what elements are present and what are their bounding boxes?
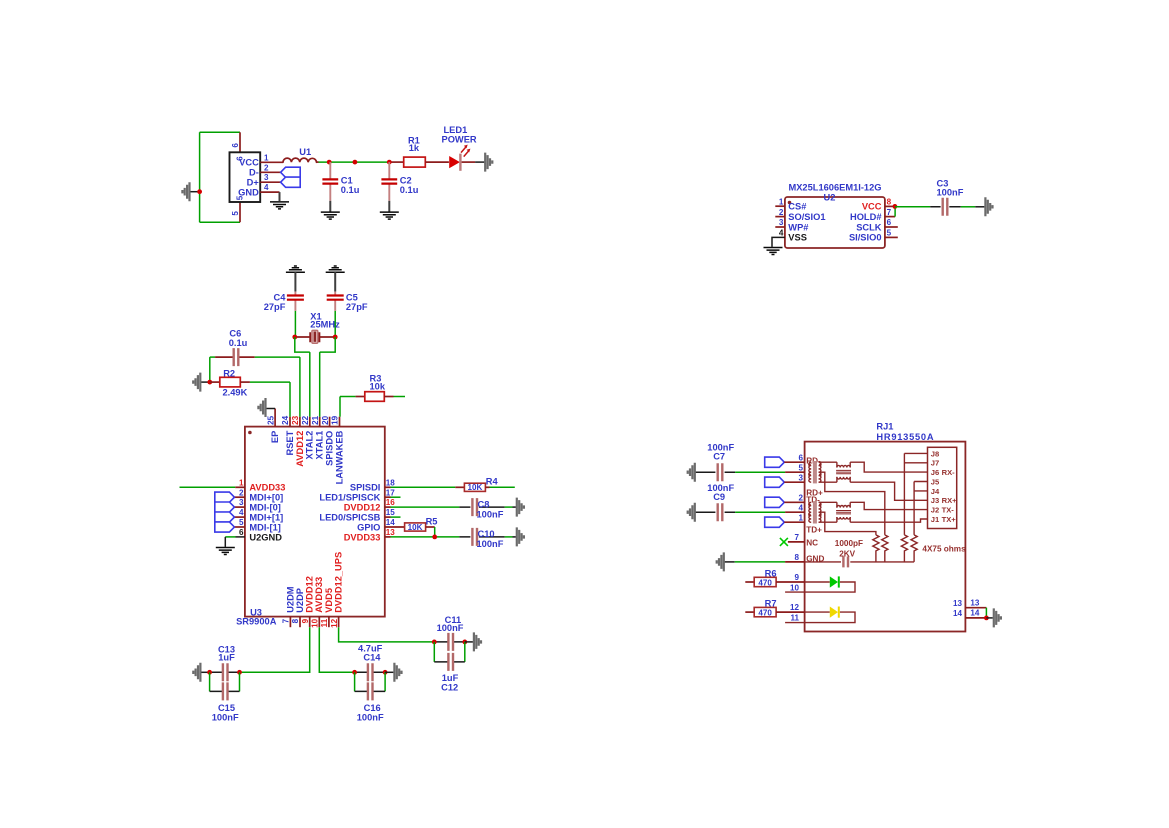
svg-text:1: 1 <box>239 478 244 487</box>
pin 3 line <box>260 181 280 183</box>
connector J-USB pin 6 line <box>239 132 241 152</box>
resistor R2 <box>210 381 220 383</box>
hierarchical label MDI-[1] <box>215 522 235 532</box>
wire VCC to C3 <box>895 206 930 208</box>
wire C6 to pin23 <box>255 357 300 417</box>
svg-text:1: 1 <box>264 153 269 162</box>
pin 1 line <box>260 161 283 163</box>
svg-text:0.1u: 0.1u <box>400 185 419 195</box>
U3 pin 25 (EP) line <box>274 409 276 427</box>
svg-text:J3: J3 <box>931 496 939 505</box>
connector J-USB pin 5 line <box>239 202 241 222</box>
hierarchical label D- <box>281 167 301 177</box>
ground (C5, inverted) <box>326 266 345 272</box>
svg-text:J8: J8 <box>931 449 939 458</box>
svg-text:27pF: 27pF <box>264 302 286 312</box>
power arrow gray right (C10) <box>517 527 524 546</box>
svg-text:100nF: 100nF <box>937 188 964 198</box>
svg-text:DVDD12: DVDD12 <box>344 502 381 512</box>
svg-text:25MHz: 25MHz <box>310 319 340 329</box>
RJ1 pin 8 (GND) <box>717 552 724 571</box>
transformer RD common-mode choke <box>813 461 817 483</box>
power arrow gray right (C11) <box>474 632 481 651</box>
junction U2 pin8 <box>893 204 898 209</box>
U2 pin 8 line <box>885 205 895 207</box>
U3 pin 3 (MDI-[0]) <box>234 506 245 508</box>
junction X1 right <box>333 335 338 340</box>
wire C13/C15 sides <box>210 672 240 691</box>
wire CMC-TD to T-TD top <box>819 501 837 503</box>
svg-text:LED1: LED1 <box>444 125 468 135</box>
hierarchical label RJ1 pin 6 <box>765 457 785 467</box>
pin 4 line <box>260 191 279 193</box>
wire XTAL1 net <box>320 337 336 417</box>
resistor 75ohm (TD tap) <box>873 535 879 562</box>
capacitor C14 <box>355 671 386 673</box>
svg-text:9: 9 <box>794 573 799 582</box>
U2 pin 3 line <box>775 226 785 228</box>
svg-text:LED1/SPISCK: LED1/SPISCK <box>319 493 380 503</box>
ground (U2GND) <box>216 548 235 555</box>
svg-text:5: 5 <box>239 518 244 527</box>
svg-text:2.49K: 2.49K <box>223 388 248 398</box>
power arrow gray right <box>485 153 492 172</box>
U3 pin 15 (LED0/SPICSB) <box>385 516 391 518</box>
hierarchical label RJ1 pin 2 <box>765 497 785 507</box>
svg-text:100nF: 100nF <box>212 712 239 722</box>
power arrow gray right (RJ shield) <box>994 608 1001 627</box>
capacitor C6 <box>210 356 215 358</box>
U3 pin 5 (MDI-[1]) <box>234 526 245 528</box>
svg-text:C14: C14 <box>363 653 381 663</box>
resistor R3 <box>340 396 356 398</box>
svg-text:GND: GND <box>238 187 259 197</box>
svg-text:HR913550A: HR913550A <box>876 432 934 442</box>
RJ1 pin 14 line <box>965 617 986 619</box>
svg-text:8: 8 <box>887 197 892 206</box>
hierarchical label MDI-[0] <box>215 502 235 512</box>
svg-text:2: 2 <box>798 493 803 502</box>
IC U3 SR9900A body <box>245 427 385 617</box>
junction C11 left <box>432 640 437 645</box>
svg-text:11: 11 <box>790 614 799 623</box>
wire RD center tap to resistor <box>819 472 885 535</box>
svg-text:2: 2 <box>239 488 244 497</box>
svg-text:U2: U2 <box>824 193 836 203</box>
svg-text:LANWAKEB: LANWAKEB <box>334 430 344 484</box>
svg-text:100nF: 100nF <box>477 539 504 549</box>
wire USB shield loop net <box>200 132 240 222</box>
svg-text:DVDD33: DVDD33 <box>344 532 381 542</box>
junction pin14 <box>984 616 989 621</box>
transformer RD isolation <box>836 462 838 467</box>
svg-text:VSS: VSS <box>788 233 807 243</box>
U3 bottom pin 10 (AVDD33) <box>318 617 320 628</box>
svg-text:AVDD12: AVDD12 <box>295 431 305 467</box>
LED yellow (activity) <box>785 612 855 623</box>
svg-text:SPISDI: SPISDI <box>350 483 380 493</box>
U3 top pin 20 (SPISDO) <box>329 417 331 427</box>
RJ1 pin 9 line <box>776 581 805 583</box>
svg-text:C9: C9 <box>713 492 725 502</box>
junction <box>197 189 202 194</box>
svg-text:R7: R7 <box>765 599 777 609</box>
U3 pin 1 (AVDD33) <box>235 486 245 488</box>
svg-text:SI/SIO0: SI/SIO0 <box>849 233 882 243</box>
svg-text:25: 25 <box>266 415 275 425</box>
svg-text:16: 16 <box>386 498 396 507</box>
svg-text:GPIO: GPIO <box>357 522 380 532</box>
capacitor 1000pF 2KV <box>805 561 915 563</box>
svg-text:5: 5 <box>798 463 803 472</box>
hierarchical label D+ <box>281 177 301 187</box>
svg-text:RX-: RX- <box>942 468 956 477</box>
svg-text:C7: C7 <box>713 452 725 462</box>
svg-text:100nF: 100nF <box>357 712 384 722</box>
svg-text:10K: 10K <box>467 483 482 492</box>
pin 2 line <box>260 171 280 173</box>
U3 top pin 23 (AVDD12) <box>299 417 301 427</box>
resistor R7 <box>745 611 754 613</box>
wire CMC-RD to T-RD bottom <box>819 481 837 483</box>
power arrow gray left <box>182 182 189 201</box>
power arrow gray right (C3) <box>985 197 992 216</box>
svg-text:MDI+[0]: MDI+[0] <box>249 493 283 503</box>
connector USB body <box>230 152 261 202</box>
junction mid <box>353 160 358 165</box>
crystal X1 <box>295 336 335 338</box>
LED green (link) <box>785 582 855 592</box>
svg-text:R6: R6 <box>765 569 777 579</box>
wire pin10 down <box>319 627 354 672</box>
capacitor C16 <box>355 690 386 692</box>
svg-text:2: 2 <box>264 163 269 172</box>
svg-text:1000pF: 1000pF <box>835 539 863 548</box>
wire T-RD top to J6 <box>850 462 927 472</box>
svg-text:SO/SIO1: SO/SIO1 <box>788 212 825 222</box>
wire J8/J7 tie <box>904 453 927 535</box>
power arrow gray left (EP) <box>258 398 265 417</box>
svg-text:23: 23 <box>291 415 300 425</box>
svg-text:17: 17 <box>386 488 396 497</box>
power arrow gray left (R2) <box>193 373 200 392</box>
svg-text:U2GND: U2GND <box>249 532 282 542</box>
wire CMC-TD to T-TD bottom <box>819 521 837 523</box>
svg-text:C12: C12 <box>441 683 458 693</box>
svg-text:RJ1: RJ1 <box>876 422 893 432</box>
svg-text:MX25L1606EM1I-12G: MX25L1606EM1I-12G <box>788 183 881 193</box>
RJ1 pin 12 line <box>776 611 805 613</box>
svg-text:7: 7 <box>282 618 291 623</box>
svg-text:2: 2 <box>779 208 784 217</box>
svg-text:100nF: 100nF <box>477 509 504 519</box>
svg-text:C6: C6 <box>229 328 241 338</box>
U3 pin 2 (MDI+[0]) <box>234 496 245 498</box>
capacitor C1 <box>329 162 331 201</box>
junction C11 right <box>462 640 467 645</box>
wire LED to ground arrow <box>462 161 476 163</box>
svg-text:4: 4 <box>239 508 244 517</box>
capacitor C9 <box>688 503 695 522</box>
IC U2 MX25L1606EM1I-12G body <box>785 197 885 248</box>
svg-text:21: 21 <box>311 415 320 425</box>
capacitor C2 <box>388 162 390 201</box>
U2 pin 2 line <box>775 216 785 218</box>
svg-text:D-: D- <box>249 168 259 178</box>
RJ1 pin 2 line <box>784 501 804 503</box>
resistor 75ohm (J4/J5) <box>911 535 917 562</box>
capacitor C8 <box>459 506 504 508</box>
hierarchical label MDI+[1] <box>215 512 235 522</box>
capacitor C4 <box>294 272 296 291</box>
svg-text:3: 3 <box>779 218 784 227</box>
svg-text:TX+: TX+ <box>942 515 957 524</box>
junction C13 left <box>207 670 212 675</box>
svg-text:LED0/SPICSB: LED0/SPICSB <box>319 512 380 522</box>
RJ1 pin 4 line <box>785 511 805 513</box>
U3 pin 14 (GPIO) <box>385 526 405 528</box>
svg-text:DVDD12_UPS: DVDD12_UPS <box>334 552 344 613</box>
wire C11/C12 sides <box>434 642 465 662</box>
svg-text:R2: R2 <box>223 368 235 378</box>
wire R2 to pin24 <box>250 382 290 417</box>
svg-text:R4: R4 <box>486 476 499 486</box>
svg-text:XTAL1: XTAL1 <box>315 431 325 460</box>
transformer TD common-mode choke <box>813 501 817 523</box>
svg-text:J1: J1 <box>931 515 940 524</box>
U2 pin 5 line <box>885 236 898 238</box>
svg-text:470: 470 <box>758 578 772 587</box>
wire HOLD# tie to VCC <box>894 206 896 216</box>
svg-text:4: 4 <box>264 183 269 192</box>
power arrow gray left (C13) <box>193 663 200 682</box>
svg-text:10: 10 <box>311 618 320 628</box>
ground (USB pin4) <box>279 192 281 201</box>
wire CMC-RD to T-RD top <box>819 461 837 463</box>
U3 pin 16 (DVDD12) <box>385 506 391 508</box>
svg-text:1: 1 <box>798 513 803 522</box>
svg-text:10: 10 <box>790 584 800 593</box>
svg-text:3: 3 <box>264 173 269 182</box>
power arrow gray right (C14) <box>394 663 401 682</box>
lead to shield loop <box>191 191 200 193</box>
svg-text:10k: 10k <box>370 382 386 392</box>
svg-text:U2DP: U2DP <box>295 588 305 613</box>
resistor R5 <box>405 523 426 531</box>
U3 bottom pin 11 (VDD5) <box>328 617 330 628</box>
svg-text:0.1u: 0.1u <box>341 185 360 195</box>
power arrow gray right (C8) <box>517 498 524 517</box>
svg-text:U1: U1 <box>299 147 311 157</box>
svg-text:XTAL2: XTAL2 <box>305 431 315 460</box>
RJ1 inner connector box <box>928 447 957 528</box>
inductor U1 <box>283 158 317 162</box>
capacitor C15 <box>210 690 240 692</box>
U2 pin 6 line <box>885 226 898 228</box>
svg-text:MDI+[1]: MDI+[1] <box>249 513 283 523</box>
svg-text:12: 12 <box>330 618 339 628</box>
wire J5/J4 tie <box>914 482 927 535</box>
U2 pin 7 line <box>885 216 895 218</box>
junction C2 <box>387 160 392 165</box>
svg-text:6: 6 <box>798 453 803 462</box>
transformer TD isolation <box>836 502 838 507</box>
pin1 orientation dot <box>788 201 792 205</box>
svg-text:19: 19 <box>331 415 340 425</box>
svg-text:100nF: 100nF <box>437 623 464 633</box>
svg-text:SPISDO: SPISDO <box>325 431 335 466</box>
LED LED1 <box>449 145 470 171</box>
U3 top pin 19 (LANWAKEB) <box>339 417 341 427</box>
hierarchical label RJ1 pin 1 <box>765 517 785 527</box>
svg-text:EP: EP <box>270 431 280 443</box>
svg-text:13: 13 <box>386 528 396 537</box>
svg-text:12: 12 <box>790 603 800 612</box>
svg-text:J5: J5 <box>931 477 940 486</box>
svg-text:VCC: VCC <box>239 158 259 168</box>
svg-text:27pF: 27pF <box>346 302 368 312</box>
junction C14 right <box>383 670 388 675</box>
svg-text:470: 470 <box>758 608 772 617</box>
U3 pin 4 (MDI+[1]) <box>234 516 245 518</box>
capacitor C7 <box>688 463 695 482</box>
ground (C4, inverted) <box>286 266 305 272</box>
svg-text:POWER: POWER <box>442 135 477 145</box>
svg-text:22: 22 <box>301 415 310 425</box>
svg-text:D+: D+ <box>247 178 260 188</box>
svg-text:CS#: CS# <box>788 202 807 212</box>
svg-text:15: 15 <box>386 508 396 517</box>
RJ1 pin 7 (NC) no-connect cross <box>780 538 788 546</box>
svg-text:1: 1 <box>779 197 784 206</box>
svg-text:MDI-[0]: MDI-[0] <box>249 503 281 513</box>
svg-text:9: 9 <box>301 618 310 623</box>
svg-text:4: 4 <box>798 503 803 512</box>
svg-text:7: 7 <box>887 208 892 217</box>
svg-text:6: 6 <box>887 218 892 227</box>
svg-text:0.1u: 0.1u <box>229 338 248 348</box>
U3 bottom pin 8 (U2DP) <box>299 617 301 628</box>
svg-text:VCC: VCC <box>862 202 882 212</box>
capacitor C13 <box>210 671 240 673</box>
svg-text:SR9900A: SR9900A <box>236 617 277 627</box>
svg-text:VDD5: VDD5 <box>324 588 334 613</box>
U3 bottom pin 9 (DVDD12) <box>309 617 311 628</box>
ground (U2 VSS) <box>764 248 783 255</box>
wire pin12 down <box>339 627 435 642</box>
wire AVDD33 net left <box>180 486 236 488</box>
U3 pin 13 (DVDD33) <box>385 536 391 538</box>
U3 top pin 24 (RSET) <box>289 417 291 427</box>
resistor R4 <box>464 483 485 491</box>
svg-text:J2: J2 <box>931 506 939 515</box>
U3 pin 17 (LED1/SPISCK) <box>385 496 391 498</box>
svg-text:18: 18 <box>386 478 396 487</box>
resistor 75ohm (J7/J8) <box>901 535 907 562</box>
capacitor C3 <box>930 206 961 208</box>
connector RJ1 body <box>805 442 966 632</box>
capacitor C10 <box>459 536 504 538</box>
svg-text:3: 3 <box>798 473 803 482</box>
wire C6/R2 junction <box>209 357 211 382</box>
U3 bottom pin 7 (U2DM) <box>289 617 291 628</box>
svg-text:AVDD33: AVDD33 <box>249 483 285 493</box>
resistor 75ohm (RD tap) <box>882 535 888 562</box>
svg-text:U2DM: U2DM <box>285 586 295 613</box>
RJ1 pin 1 line <box>784 521 804 523</box>
svg-text:RX+: RX+ <box>942 496 958 505</box>
svg-text:J4: J4 <box>931 487 940 496</box>
wire T-TD top to J2 <box>850 502 927 509</box>
wire R1 to LED <box>425 161 449 163</box>
svg-text:J7: J7 <box>931 459 939 468</box>
svg-text:14: 14 <box>953 609 963 618</box>
U3 top pin 22 (XTAL2) <box>309 417 311 427</box>
svg-text:1uF: 1uF <box>218 653 235 663</box>
junction C13 right <box>237 670 242 675</box>
resistor R1 <box>404 157 426 167</box>
svg-text:R5: R5 <box>426 517 438 527</box>
svg-text:WP#: WP# <box>788 222 809 232</box>
svg-text:MDI-[1]: MDI-[1] <box>249 522 281 532</box>
svg-text:4X75 ohms: 4X75 ohms <box>922 545 966 554</box>
svg-text:C8: C8 <box>478 499 490 509</box>
svg-text:NC: NC <box>806 538 818 547</box>
svg-text:1k: 1k <box>409 143 420 153</box>
hierarchical label RJ1 pin 3 <box>765 477 785 487</box>
wire T-TD bottom to J1 <box>850 519 927 522</box>
svg-text:8: 8 <box>291 618 300 623</box>
svg-text:5: 5 <box>887 229 892 238</box>
svg-text:5: 5 <box>231 211 240 216</box>
U2 pin 1 line <box>775 205 785 207</box>
wire TD center tap to resistor <box>819 512 876 535</box>
RJ1 pin 13 line <box>965 607 986 609</box>
pin1 orientation dot U3 <box>248 431 252 435</box>
wire R3 to pin19 <box>339 397 341 417</box>
junction C1 <box>327 160 332 165</box>
U3 pin 6 (U2GND) <box>236 536 245 538</box>
wire VBUS net <box>317 161 319 163</box>
RJ1 pin 5 line <box>785 471 805 473</box>
svg-text:J6: J6 <box>931 468 939 477</box>
wire XTAL2 net <box>295 337 310 417</box>
svg-text:14: 14 <box>970 609 980 618</box>
svg-text:AVDD33: AVDD33 <box>314 577 324 613</box>
svg-text:C10: C10 <box>478 529 495 539</box>
wire R5 to pin13 net <box>434 527 436 537</box>
junction C14 left <box>352 670 357 675</box>
svg-text:3: 3 <box>239 498 244 507</box>
svg-text:HOLD#: HOLD# <box>850 212 882 222</box>
svg-text:2KV: 2KV <box>839 550 855 559</box>
capacitor C12 <box>434 661 465 663</box>
RJ1 pin 6 line <box>784 461 804 463</box>
junction X1 left <box>292 335 297 340</box>
hierarchical label MDI+[0] <box>215 492 235 502</box>
RJ1 pin 3 line <box>784 481 804 483</box>
svg-text:TX-: TX- <box>942 506 955 515</box>
svg-text:DVDD12: DVDD12 <box>305 576 315 613</box>
svg-text:6: 6 <box>239 528 244 537</box>
svg-text:4: 4 <box>779 229 784 238</box>
wire T-RD bottom to J3 <box>850 482 927 500</box>
U2 pin 4 line (VSS) <box>772 237 785 247</box>
svg-text:10K: 10K <box>408 523 423 532</box>
wire C14/C16 sides <box>355 672 386 691</box>
svg-text:24: 24 <box>281 415 290 425</box>
svg-text:20: 20 <box>321 415 330 425</box>
